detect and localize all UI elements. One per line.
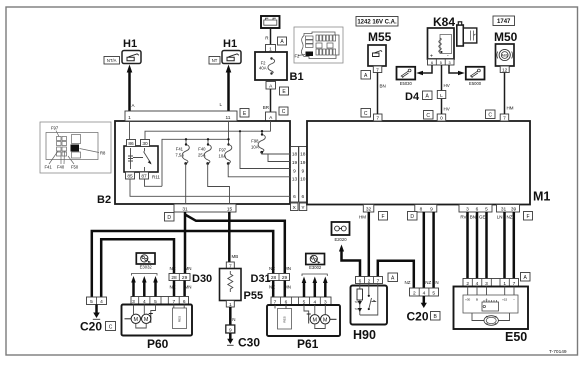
B2 top pin row	[125, 111, 237, 121]
svg-text:R8: R8	[100, 151, 106, 156]
svg-text:F40: F40	[57, 165, 65, 170]
svg-text:0: 0	[440, 116, 443, 122]
wire H90 pin2 to M1 pin32	[368, 212, 371, 277]
version tag 1242 16V C.A.	[356, 17, 398, 27]
svg-text:C: C	[282, 109, 286, 115]
svg-text:7: 7	[503, 116, 506, 122]
svg-text:11: 11	[226, 115, 231, 121]
svg-text:B: B	[476, 298, 478, 302]
svg-text:E5030: E5030	[400, 81, 413, 86]
svg-text:NT: NT	[212, 58, 218, 63]
horn H1 right	[222, 38, 241, 64]
svg-text:P60: P60	[147, 337, 169, 351]
svg-text:LN: LN	[497, 215, 503, 220]
relay pin row	[428, 59, 455, 65]
connector label NT	[209, 57, 220, 65]
svg-text:P55: P55	[244, 290, 264, 302]
svg-text:M: M	[134, 317, 139, 323]
svg-text:M50: M50	[494, 30, 518, 44]
svg-text:18: 18	[292, 152, 298, 158]
wire K84 to E5000	[449, 65, 465, 75]
wires M1 to E50	[466, 212, 469, 279]
wire to H1 right with arrow	[219, 65, 231, 112]
svg-text:D4: D4	[405, 91, 420, 103]
earth arrows to E3002	[302, 274, 328, 297]
svg-text:13: 13	[292, 177, 298, 183]
svg-text:9: 9	[293, 168, 296, 174]
svg-text:C: C	[109, 324, 113, 330]
wire K84 to E5030	[416, 65, 432, 75]
label D	[165, 213, 175, 222]
svg-text:2: 2	[413, 291, 416, 297]
B2/M1 interconnect pin columns	[291, 147, 307, 203]
wire battery to B1	[265, 28, 270, 45]
svg-text:5: 5	[432, 291, 435, 297]
svg-text:10: 10	[300, 177, 306, 183]
instrument cluster E50	[454, 279, 529, 345]
control unit M1	[307, 121, 530, 205]
svg-text:NT/A: NT/A	[107, 58, 117, 63]
svg-text:BN: BN	[380, 84, 386, 89]
svg-text:R11: R11	[152, 175, 160, 180]
ground E5030	[397, 67, 416, 86]
svg-text:5: 5	[90, 299, 93, 305]
svg-text:74: 74	[355, 307, 359, 311]
label C	[361, 109, 371, 118]
svg-text:28: 28	[271, 275, 277, 281]
connector D30	[169, 266, 212, 297]
svg-text:+30: +30	[465, 298, 470, 302]
wire C20 pin5 to D31 pin28	[92, 231, 273, 297]
svg-text:C20: C20	[407, 310, 429, 324]
svg-text:HV: HV	[444, 107, 450, 112]
svg-text:E2020: E2020	[334, 237, 347, 242]
svg-text:F41: F41	[176, 147, 184, 152]
svg-text:5: 5	[440, 61, 442, 65]
pin 1 of B1	[266, 45, 276, 53]
svg-text:NZ: NZ	[425, 280, 431, 285]
B2 interior wires: feed bus	[130, 121, 291, 169]
svg-text:9: 9	[301, 168, 304, 174]
wire C20 pin4 to D30 pin28	[101, 239, 174, 297]
connector C20 engine side	[80, 297, 116, 334]
svg-text:D: D	[167, 215, 171, 221]
fan assembly P61	[267, 297, 340, 351]
svg-text:F97: F97	[51, 126, 59, 131]
svg-text:19: 19	[292, 160, 298, 166]
svg-text:1242 16V C.A.: 1242 16V C.A.	[357, 20, 397, 26]
motors	[131, 314, 140, 323]
svg-text:1747: 1747	[497, 19, 511, 25]
svg-text:C: C	[488, 113, 492, 119]
pressure switch H90	[351, 277, 388, 343]
svg-text:HV: HV	[444, 83, 450, 88]
relay K84	[428, 15, 477, 65]
splice E2020	[332, 222, 350, 242]
svg-text:5: 5	[485, 207, 488, 213]
svg-text:H90: H90	[353, 328, 376, 342]
svg-text:D30: D30	[192, 273, 212, 285]
svg-text:15: 15	[227, 206, 233, 212]
svg-text:87: 87	[141, 174, 147, 180]
svg-text:H1: H1	[123, 38, 137, 50]
ground E5000	[466, 67, 485, 86]
labels F D F	[379, 212, 388, 221]
svg-text:C: C	[364, 111, 368, 117]
label A	[361, 71, 371, 80]
svg-text:4: 4	[423, 291, 426, 297]
horn H1 left	[122, 38, 141, 64]
svg-text:MN: MN	[185, 266, 192, 271]
label C	[424, 111, 434, 120]
connector D4	[405, 91, 446, 104]
svg-text:M: M	[323, 317, 328, 323]
svg-text:D: D	[410, 214, 414, 220]
fuse F41	[175, 143, 189, 165]
svg-text:F97: F97	[219, 148, 227, 153]
svg-text:F: F	[381, 214, 384, 220]
relay connector drawing	[457, 25, 464, 46]
fuse F98	[251, 133, 265, 153]
wires M1 pins 8,9 to C20	[423, 212, 426, 288]
svg-text:F41: F41	[45, 165, 53, 170]
junction unit B2	[115, 121, 290, 204]
fusebox B2 location inset	[40, 122, 111, 173]
svg-text:F2: F2	[295, 54, 301, 59]
svg-text:19: 19	[300, 160, 306, 166]
svg-text:M: M	[144, 317, 149, 323]
svg-text:HM: HM	[359, 215, 366, 220]
svg-text:BN: BN	[470, 215, 476, 220]
battery supply symbol	[261, 16, 280, 28]
connector D31	[251, 266, 292, 297]
svg-text:MN: MN	[284, 266, 291, 271]
svg-text:D31: D31	[251, 273, 271, 285]
wire B2 pin31 to D30 pin29	[184, 212, 187, 274]
svg-text:NZ: NZ	[507, 215, 513, 220]
svg-text:31: 31	[501, 207, 507, 213]
svg-text:MB: MB	[232, 254, 239, 259]
svg-text:N: N	[232, 317, 235, 322]
svg-text:E3002: E3002	[309, 265, 322, 270]
svg-text:C20: C20	[80, 320, 102, 334]
earth arrows to E3032	[131, 274, 158, 297]
svg-text:10A: 10A	[251, 145, 259, 150]
svg-text:28: 28	[171, 275, 177, 281]
svg-text:7: 7	[376, 116, 379, 122]
B2 interior wires to pins	[130, 152, 291, 204]
pin A on B2	[266, 112, 277, 121]
svg-text:T-70149: T-70149	[549, 349, 567, 355]
svg-text:E3032: E3032	[140, 265, 153, 270]
fuse F40	[198, 143, 211, 165]
svg-text:C: C	[426, 113, 430, 119]
svg-text:F40: F40	[198, 147, 206, 152]
svg-text:8: 8	[420, 207, 423, 213]
svg-text:4: 4	[100, 299, 103, 305]
svg-text:HM: HM	[507, 106, 514, 111]
svg-text:L: L	[440, 93, 443, 99]
svg-text:18: 18	[300, 152, 306, 158]
label E	[240, 109, 249, 118]
wire to H1 left with arrow	[127, 65, 135, 112]
svg-text:N: N	[435, 280, 438, 285]
B2 bottom pin row	[174, 204, 236, 212]
label C	[279, 107, 288, 115]
svg-text:29: 29	[282, 275, 288, 281]
svg-text:B1: B1	[290, 71, 304, 83]
M1 top pins	[374, 114, 383, 122]
horn control switch M55	[368, 30, 392, 73]
svg-text:ABS: ABS	[502, 54, 508, 58]
svg-text:B2: B2	[97, 194, 111, 206]
svg-text:30: 30	[142, 141, 148, 147]
svg-text:NZ: NZ	[170, 266, 176, 271]
connector X Y labels	[291, 203, 307, 211]
label A	[388, 273, 398, 282]
svg-text:C30: C30	[238, 336, 260, 350]
svg-text:86: 86	[128, 141, 134, 147]
svg-text:40A: 40A	[259, 66, 267, 71]
svg-text:NZ: NZ	[269, 266, 275, 271]
svg-text:F: F	[526, 214, 529, 220]
svg-text:3: 3	[466, 207, 469, 213]
wire B2 pin31 branch to D31 pin29	[185, 215, 285, 274]
svg-text:73: 73	[355, 300, 359, 304]
svg-text:3: 3	[449, 61, 451, 65]
fan assembly P60	[122, 297, 193, 352]
pin A of B1	[266, 82, 276, 90]
label A	[521, 273, 531, 282]
svg-text:RV: RV	[460, 215, 466, 220]
wire M50 to M1	[505, 73, 514, 115]
connector label NT/A	[104, 57, 120, 65]
svg-text:P61: P61	[297, 337, 319, 351]
svg-text:--: --	[513, 298, 515, 302]
connector C20 dash side	[405, 280, 441, 324]
svg-text:M: M	[313, 317, 318, 323]
wire B2 pin15 to P55	[229, 212, 238, 262]
B2 interior fuse feed rail	[162, 139, 230, 186]
earth point E3032	[136, 253, 155, 270]
svg-text:9: 9	[430, 207, 433, 213]
svg-text:6: 6	[476, 207, 479, 213]
M1 bottom pins	[363, 205, 374, 213]
wire B1 to B2 pin A	[263, 89, 271, 112]
svg-text:BR: BR	[263, 105, 270, 110]
svg-text:E50: E50	[505, 330, 527, 344]
svg-text:+15: +15	[502, 298, 507, 302]
B2 interior: relay R11	[124, 140, 160, 180]
svg-text:6: 6	[431, 61, 433, 65]
svg-text:RES: RES	[283, 316, 287, 322]
svg-text:NZ: NZ	[405, 280, 411, 285]
label C	[486, 110, 496, 119]
svg-text:M55: M55	[368, 30, 392, 44]
ABS control unit M50	[494, 30, 518, 73]
svg-text:A: A	[132, 103, 135, 108]
svg-text:39: 39	[511, 207, 517, 213]
svg-text:9: 9	[229, 327, 232, 333]
resistor P55	[220, 262, 264, 350]
svg-text:85: 85	[127, 174, 133, 180]
label A	[278, 37, 287, 45]
svg-text:F50: F50	[71, 165, 79, 170]
svg-text:RES: RES	[178, 316, 182, 322]
svg-text:32: 32	[366, 207, 372, 213]
svg-text:E5000: E5000	[469, 81, 482, 86]
version tag 1747	[493, 16, 515, 26]
svg-text:1: 1	[128, 115, 131, 121]
fusebox B1	[255, 52, 304, 83]
wire H90 pin6 to E2020	[339, 245, 360, 277]
wire H90 pin7 to C20 pin2	[378, 261, 414, 288]
svg-text:29: 29	[182, 275, 188, 281]
label E	[280, 87, 289, 95]
wire M55 to M1	[378, 73, 386, 115]
svg-text:F98: F98	[251, 139, 259, 144]
fuse F97	[219, 145, 232, 165]
svg-text:M1: M1	[533, 190, 550, 204]
wire K84 to M1 via D4	[442, 65, 450, 114]
earth point E3002	[306, 254, 325, 271]
svg-text:K84: K84	[433, 15, 455, 29]
svg-text:H1: H1	[223, 38, 237, 50]
svg-text:31: 31	[182, 206, 188, 212]
fusebox B1 location inset	[294, 27, 343, 63]
svg-text:6: 6	[301, 194, 304, 200]
svg-text:6: 6	[293, 194, 296, 200]
svg-text:GE: GE	[479, 215, 486, 220]
